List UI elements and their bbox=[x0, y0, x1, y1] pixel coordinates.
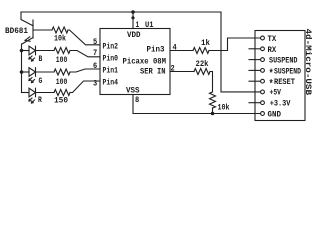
svg-text:5: 5 bbox=[93, 38, 97, 47]
svg-text:Picaxe 08M: Picaxe 08M bbox=[123, 57, 167, 67]
pin *RESET circle bbox=[261, 79, 265, 83]
node LED G junction bbox=[20, 70, 24, 74]
pin SUSPEND circle bbox=[261, 58, 265, 62]
svg-text:10k: 10k bbox=[54, 34, 66, 44]
node VDD junction bbox=[131, 10, 135, 14]
wire R2 to Pin0 bbox=[70, 51, 100, 57]
resistor R1 10k base bbox=[52, 27, 68, 33]
wire 22k corner down bbox=[210, 72, 213, 93]
wire *RESET lead bbox=[249, 80, 261, 82]
svg-text:2: 2 bbox=[171, 65, 175, 74]
pin TX circle bbox=[261, 36, 265, 40]
pin RX circle bbox=[261, 47, 265, 51]
wire SUSPEND lead bbox=[249, 59, 261, 61]
resistor R3 100 bbox=[54, 69, 70, 75]
node ground junction bbox=[211, 112, 215, 116]
svg-text:+5V: +5V bbox=[270, 89, 282, 98]
pin 1 endpoint dot bbox=[131, 16, 134, 19]
svg-text:SUSPEND: SUSPEND bbox=[269, 57, 298, 66]
LED G D2 bbox=[22, 68, 36, 83]
wire *SUSPEND lead bbox=[249, 69, 261, 71]
wire R4 to Pin4 bbox=[70, 81, 100, 93]
svg-text:4d-Micro-USB: 4d-Micro-USB bbox=[303, 29, 313, 96]
resistor R7 10k pulldown bbox=[210, 92, 216, 108]
pin +5V circle bbox=[261, 90, 265, 94]
svg-text:Pin4: Pin4 bbox=[103, 78, 119, 88]
svg-text:RX: RX bbox=[268, 46, 277, 55]
wire LED R to R4 bbox=[36, 92, 55, 94]
svg-text:U1: U1 bbox=[145, 21, 154, 30]
svg-text:R: R bbox=[38, 96, 42, 105]
wire RX lead bbox=[249, 48, 261, 50]
svg-text:Pin3: Pin3 bbox=[147, 45, 165, 55]
node LED B junction bbox=[20, 49, 24, 53]
wire base to Pin2 bbox=[68, 30, 100, 45]
svg-text:RESET: RESET bbox=[274, 78, 295, 87]
svg-text:GND: GND bbox=[268, 111, 282, 120]
pin GND circle bbox=[261, 112, 265, 116]
svg-text:Pin1: Pin1 bbox=[103, 66, 119, 76]
transistor Q1 BD681 bbox=[21, 12, 33, 44]
wire R3 to Pin1 bbox=[70, 69, 100, 72]
resistor R5 1k bbox=[193, 48, 209, 54]
resistor R6 22k bbox=[194, 69, 210, 75]
svg-text:22k: 22k bbox=[196, 59, 209, 69]
LED B D1 bbox=[22, 46, 36, 61]
svg-text:100: 100 bbox=[56, 56, 68, 65]
pin +3.3V circle bbox=[261, 101, 265, 105]
resistor R2 100 bbox=[54, 48, 70, 54]
svg-text:10k: 10k bbox=[218, 103, 230, 113]
svg-text:SER IN: SER IN bbox=[140, 68, 166, 77]
svg-text:100: 100 bbox=[56, 78, 68, 87]
wire VDD drop bbox=[132, 12, 134, 29]
wire emitter column bbox=[21, 44, 23, 93]
wire top rail bbox=[21, 11, 221, 13]
svg-text:+3.3V: +3.3V bbox=[270, 100, 291, 109]
svg-text:TX: TX bbox=[268, 35, 277, 44]
svg-text:1: 1 bbox=[136, 21, 140, 30]
wire +3.3V lead bbox=[249, 102, 261, 104]
resistor R4 150 bbox=[54, 90, 70, 96]
svg-text:SUSPEND: SUSPEND bbox=[274, 68, 301, 77]
wire 1k to TX bbox=[209, 38, 261, 51]
svg-text:BD681: BD681 bbox=[5, 27, 28, 36]
wire LED B to R2 bbox=[36, 50, 55, 52]
svg-text:4: 4 bbox=[173, 44, 177, 53]
wire 10k to ground line bbox=[212, 108, 214, 114]
svg-text:150: 150 bbox=[54, 97, 68, 106]
svg-text:8: 8 bbox=[135, 96, 139, 105]
svg-text:3: 3 bbox=[93, 80, 97, 89]
svg-text:7: 7 bbox=[93, 49, 97, 58]
svg-text:B: B bbox=[39, 55, 43, 64]
chip U1 box bbox=[100, 29, 170, 95]
connector J1 box bbox=[255, 31, 305, 121]
svg-text:6: 6 bbox=[93, 62, 97, 71]
wire LED G to R3 bbox=[36, 71, 55, 73]
svg-text:1k: 1k bbox=[201, 38, 210, 48]
wire base bbox=[33, 29, 52, 31]
pin *SUSPEND circle bbox=[261, 69, 265, 73]
wire VSS to GND bbox=[133, 95, 261, 114]
LED R D3 bbox=[22, 88, 36, 103]
svg-text:VSS: VSS bbox=[126, 87, 140, 96]
svg-text:G: G bbox=[39, 77, 43, 86]
svg-text:VDD: VDD bbox=[127, 31, 141, 40]
wire Pin3 stub bbox=[170, 50, 193, 52]
svg-text:Pin2: Pin2 bbox=[103, 42, 119, 52]
wire +5V drop bbox=[221, 12, 261, 92]
wire SER IN stub bbox=[170, 71, 194, 73]
svg-text:Pin0: Pin0 bbox=[103, 54, 119, 64]
